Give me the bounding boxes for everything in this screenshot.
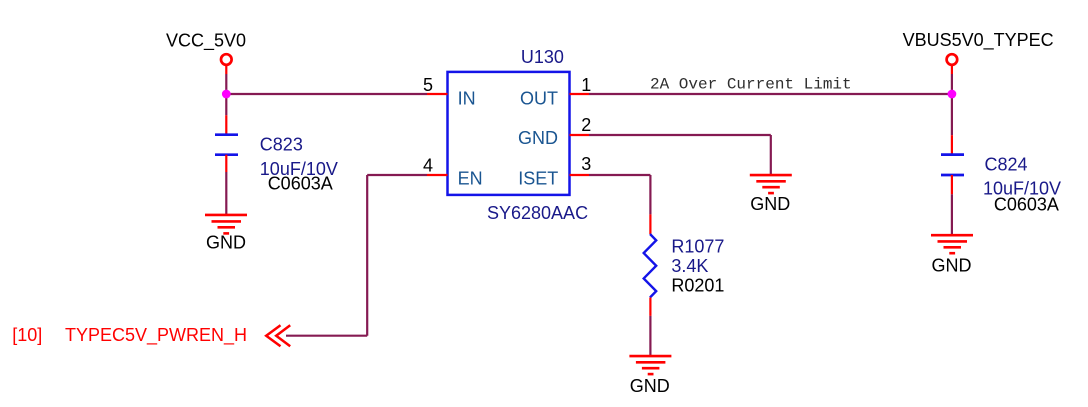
svg-text:GND: GND — [518, 128, 558, 148]
capacitor C824 bottom lead — [951, 175, 953, 194]
svg-text:2: 2 — [581, 115, 591, 135]
wire GND pin 2 horizontal — [589, 134, 771, 136]
ground symbol pin 2 — [750, 175, 792, 193]
wire EN net horizontal bottom — [286, 335, 367, 337]
wire OUT net horizontal — [589, 93, 952, 95]
svg-text:C824: C824 — [985, 155, 1028, 175]
svg-text:GND: GND — [630, 376, 670, 396]
ground symbol below C823 — [205, 215, 247, 234]
wire EN net horizontal top — [367, 174, 427, 176]
wire ISET pin 3 vertical — [649, 175, 651, 214]
svg-text:SY6280AAC: SY6280AAC — [487, 203, 588, 223]
svg-text:GND: GND — [206, 233, 246, 253]
svg-text:3: 3 — [581, 154, 591, 174]
wire pin lead from VBUS circle — [951, 66, 953, 74]
svg-text:C0603A: C0603A — [994, 194, 1059, 214]
svg-text:IN: IN — [458, 88, 476, 108]
svg-text:U130: U130 — [521, 47, 564, 67]
svg-text:C823: C823 — [260, 135, 303, 155]
wire ISET pin 3 horizontal — [589, 174, 650, 176]
resistor R1077 bottom lead — [649, 298, 651, 316]
wire C823 to ground — [225, 172, 227, 215]
svg-text:5: 5 — [423, 75, 433, 95]
svg-text:OUT: OUT — [520, 88, 558, 108]
junction dot left — [222, 90, 231, 99]
svg-text:TYPEC5V_PWREN_H: TYPEC5V_PWREN_H — [65, 325, 247, 346]
svg-text:C0603A: C0603A — [268, 174, 333, 194]
capacitor C823 bottom lead — [225, 155, 227, 172]
off-page connector chevron 1 — [266, 325, 280, 346]
wire junction down to C824 — [951, 94, 953, 135]
wire C824 to ground — [951, 194, 953, 235]
ground symbol below C824 — [931, 235, 973, 253]
wire main IN net horizontal — [226, 93, 427, 95]
capacitor C824 top lead — [951, 135, 953, 154]
pin 4 stub — [427, 174, 448, 176]
capacitor C823 plates — [215, 135, 238, 155]
svg-text:EN: EN — [458, 168, 483, 188]
wire junction down to C823 — [225, 94, 227, 115]
wire circle to junction — [225, 74, 227, 94]
power symbol VBUS5V0_TYPEC — [947, 54, 958, 65]
pin 1 stub — [570, 93, 590, 95]
resistor R1077 top lead — [649, 214, 651, 234]
svg-text:4: 4 — [423, 156, 433, 176]
capacitor C824 plates — [941, 155, 964, 175]
wire pin lead from VCC_5V0 circle — [225, 66, 227, 74]
svg-text:GND: GND — [932, 255, 972, 275]
junction dot right — [948, 90, 957, 99]
op-amp U1: IC U130 box — [448, 72, 570, 195]
svg-text:3.4K: 3.4K — [671, 256, 708, 276]
wire GND pin 2 vertical — [770, 135, 772, 175]
wire circle to junction right — [951, 74, 953, 94]
svg-text:GND: GND — [750, 194, 790, 214]
svg-text:ISET: ISET — [518, 168, 558, 188]
pin 2 stub — [570, 134, 590, 136]
capacitor C823 top lead — [225, 115, 227, 134]
svg-text:VCC_5V0: VCC_5V0 — [166, 31, 246, 52]
off-page connector chevron 2 — [276, 325, 290, 346]
svg-text:VBUS5V0_TYPEC: VBUS5V0_TYPEC — [903, 30, 1054, 51]
wire R1077 to ground — [649, 316, 651, 356]
resistor R1077 zigzag — [644, 234, 657, 298]
svg-text:[10]: [10] — [12, 325, 42, 345]
wire EN net vertical — [366, 175, 368, 336]
power symbol VCC_5V0 — [221, 54, 232, 65]
pin 5 stub — [427, 93, 448, 95]
svg-text:R1077: R1077 — [671, 237, 724, 257]
pin 3 stub — [570, 174, 590, 176]
ground symbol below R1077 — [629, 356, 671, 374]
svg-text:2A Over Current Limit: 2A Over Current Limit — [650, 76, 852, 94]
svg-text:1: 1 — [581, 75, 591, 95]
svg-text:R0201: R0201 — [671, 276, 724, 296]
